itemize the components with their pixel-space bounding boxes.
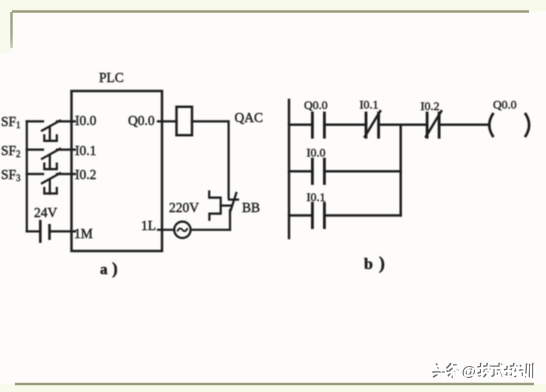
pushbutton SF3 contact <box>27 173 75 193</box>
svg-text:Q0.0: Q0.0 <box>128 113 155 128</box>
frame bottom line <box>15 383 534 385</box>
left power rail <box>288 100 290 238</box>
rung 3 wires <box>289 214 312 216</box>
coil QAC <box>177 107 193 135</box>
contact I0.2 NC <box>426 111 441 137</box>
part (a) text labels <box>1 70 263 278</box>
svg-text:I0.1: I0.1 <box>360 98 379 112</box>
junction vertical wire <box>400 125 402 216</box>
pushbutton SF1 contact <box>27 121 75 141</box>
frame top line <box>12 10 529 12</box>
svg-text:I0.0: I0.0 <box>75 113 97 128</box>
PLC box U1 <box>72 91 163 251</box>
output coil Q0.0 <box>489 114 529 136</box>
svg-text:1M: 1M <box>74 226 93 241</box>
contact I0.1 branch <box>312 203 324 227</box>
frame left corner line <box>10 12 12 48</box>
svg-text:QAC: QAC <box>235 110 264 125</box>
svg-text:Q0.0: Q0.0 <box>304 98 328 112</box>
svg-text:24V: 24V <box>34 205 58 220</box>
contact Q0.0 <box>312 113 324 137</box>
rung 2 wires <box>289 170 312 172</box>
svg-text:I0.1: I0.1 <box>307 190 326 204</box>
svg-text:1L: 1L <box>141 218 156 233</box>
contact I0.1 NC <box>365 111 380 137</box>
svg-text:220V: 220V <box>169 200 199 215</box>
battery 24V <box>27 221 75 241</box>
watermark white layer <box>435 365 535 382</box>
wire Q0.0 to coil <box>158 120 177 122</box>
svg-text:I0.0: I0.0 <box>307 146 326 160</box>
left rail wire <box>26 121 28 231</box>
pushbutton SF2 contact <box>27 149 75 169</box>
AC source 220V <box>158 222 230 238</box>
watermark shadow layer <box>433 364 533 381</box>
wire coil to corner and down <box>192 121 229 198</box>
svg-text:Q0.0: Q0.0 <box>493 98 517 112</box>
svg-text:I0.2: I0.2 <box>75 167 96 182</box>
svg-text:I0.1: I0.1 <box>75 143 96 158</box>
contact I0.0 <box>312 159 324 183</box>
part (b) labels <box>304 98 517 275</box>
rung 1 wires <box>289 123 312 125</box>
svg-text:I0.2: I0.2 <box>421 99 440 113</box>
svg-text:BB: BB <box>242 200 260 215</box>
wire battery to 1M <box>50 230 76 232</box>
svg-text:PLC: PLC <box>99 70 124 85</box>
emergency stop BB <box>209 192 238 230</box>
